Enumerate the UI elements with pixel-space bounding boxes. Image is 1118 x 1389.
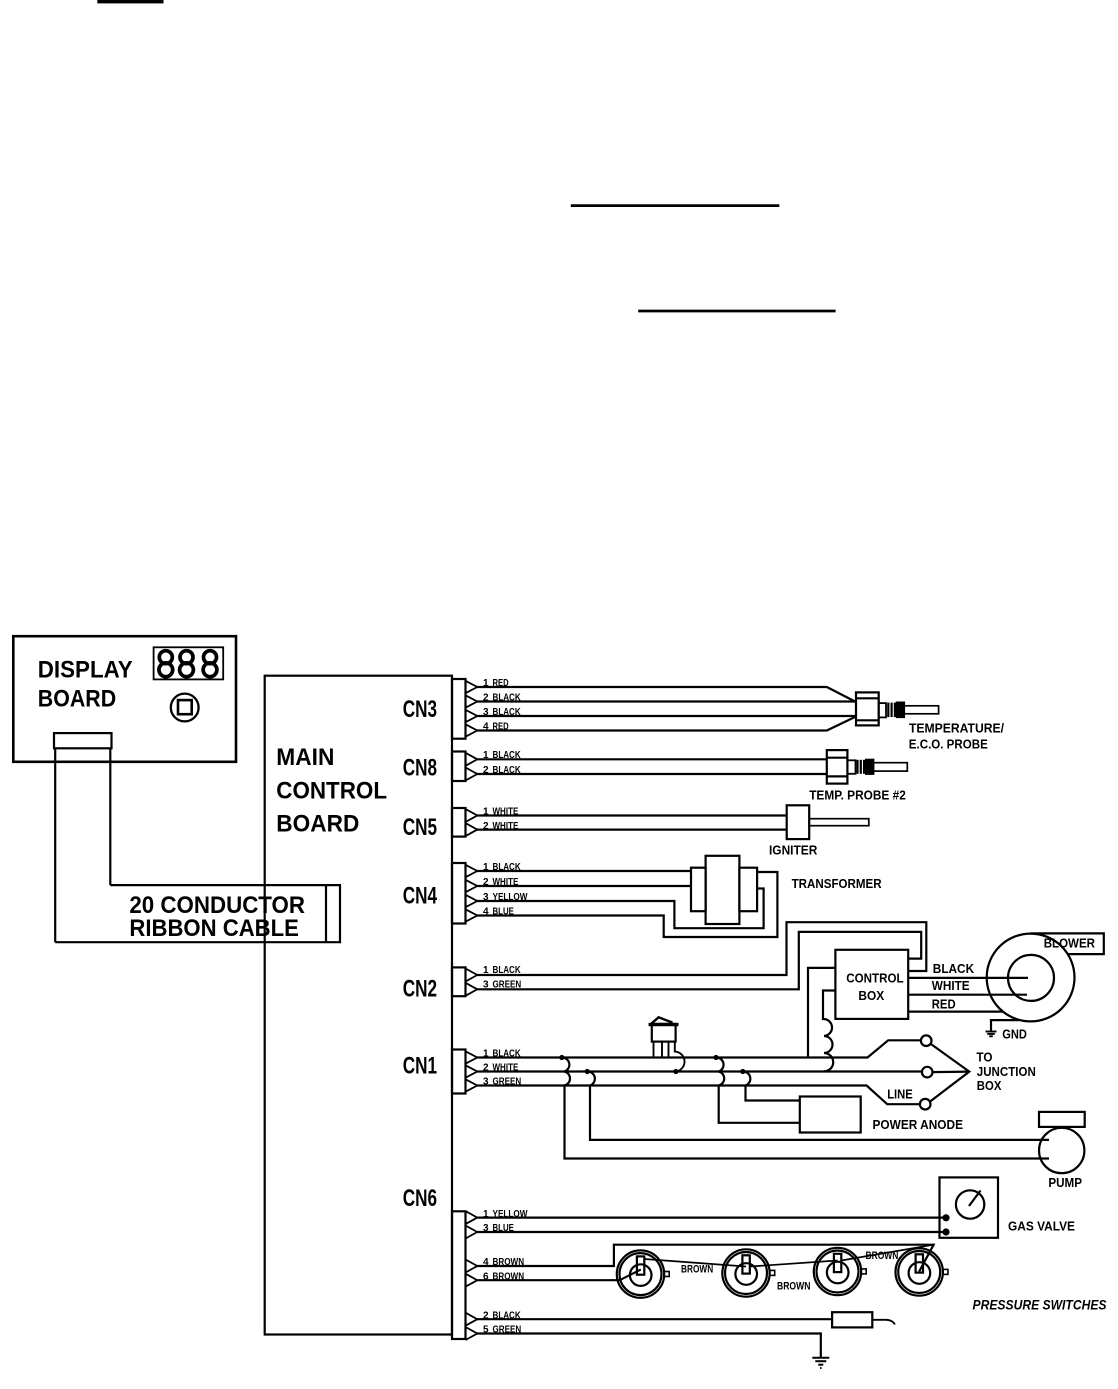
ground symbol bottom (812, 1358, 829, 1368)
svg-text:PUMP: PUMP (1048, 1175, 1082, 1190)
CN3 pin labels (483, 678, 521, 733)
connector CN2 (403, 967, 478, 1002)
svg-text:BLACK: BLACK (933, 961, 975, 976)
svg-text:BROWN: BROWN (866, 1250, 899, 1262)
wire CN8-2 black (477, 773, 827, 775)
wire CN6-5 green (477, 1334, 821, 1358)
wire CN4-2 white (477, 885, 691, 887)
svg-text:BOARD: BOARD (276, 811, 359, 838)
junction terminal circle 2 (922, 1067, 933, 1078)
svg-text:TRANSFORMER: TRANSFORMER (792, 876, 883, 891)
svg-text:DISPLAY: DISPLAY (38, 657, 133, 684)
igniter (769, 805, 869, 857)
blower ground wire (991, 1020, 1019, 1031)
svg-text:MAIN: MAIN (276, 744, 334, 771)
svg-text:CN6: CN6 (403, 1185, 437, 1212)
main control board U1 outline (265, 676, 452, 1335)
wire CN5-2 white (477, 828, 786, 830)
pressure switch PS2 (722, 1249, 774, 1296)
svg-text:RED: RED (932, 997, 956, 1012)
control box (835, 950, 908, 1019)
rocker switch S1 (649, 1017, 685, 1071)
ribbon cable connector at display board (54, 733, 112, 748)
junction labels (887, 1049, 1036, 1101)
svg-text:TEMP. PROBE #2: TEMP. PROBE #2 (809, 788, 906, 803)
20 conductor ribbon cable box (55, 885, 340, 942)
wire CN6-4 brown to pressure switch chain (477, 1245, 933, 1272)
wire PS3 to corner brown (841, 1245, 933, 1261)
gas valve (940, 1177, 1076, 1237)
CN6 pin labels (483, 1209, 528, 1336)
junction terminal circle 1 (921, 1035, 932, 1046)
svg-text:TO: TO (976, 1049, 992, 1064)
svg-text:GAS VALVE: GAS VALVE (1008, 1219, 1075, 1234)
wire CN6-6 brown to switch PS1 (477, 1270, 641, 1281)
wire CN3-1 red (477, 687, 856, 702)
wire drop V4 to power anode (740, 1069, 800, 1101)
wire CN3-3 black (477, 715, 856, 717)
CN8 pin labels (483, 750, 521, 776)
wire PS2 to PS3 brown (750, 1261, 838, 1267)
blower wire labels (932, 961, 975, 1012)
svg-text:POWER ANODE: POWER ANODE (873, 1117, 964, 1132)
svg-text:CN2: CN2 (403, 976, 437, 1003)
wire CN2-1 black (477, 922, 926, 975)
wire CN1-2 white (477, 1070, 922, 1072)
svg-text:CN5: CN5 (403, 814, 437, 841)
display board U2 outline (13, 636, 236, 762)
svg-text:BLOWER: BLOWER (1044, 936, 1096, 951)
svg-text:CN4: CN4 (403, 883, 438, 910)
temp probe #2 (809, 750, 907, 803)
title underline 2 (638, 310, 835, 313)
CN2 pin labels (483, 965, 521, 990)
seven segment display 888 (154, 647, 224, 679)
wire CN2-3 green (477, 932, 921, 989)
wire control box left squiggle to CN1-2 (823, 991, 835, 1072)
wire CN3-4 red (477, 717, 856, 731)
connector CN3 (403, 679, 478, 739)
svg-text:GND: GND (1002, 1027, 1027, 1042)
CN4 pin labels (483, 862, 528, 918)
svg-text:CONTROL: CONTROL (846, 970, 903, 985)
wire control box left to CN1-1 (808, 968, 835, 1058)
ground GND symbol (986, 1032, 997, 1037)
svg-text:IGNITER: IGNITER (769, 842, 818, 857)
wire PS1 to PS2 brown (644, 1259, 746, 1267)
CN5 pin labels (483, 807, 519, 832)
svg-text:CONTROL: CONTROL (276, 777, 387, 804)
wire CN4-4 blue (477, 872, 777, 937)
svg-text:CN8: CN8 (403, 755, 437, 782)
connector CN4 (403, 863, 478, 924)
blower M1 (987, 933, 1104, 1021)
ribbon cable run (54, 748, 56, 942)
svg-text:PRESSURE SWITCHES: PRESSURE SWITCHES (973, 1298, 1107, 1313)
junction terminal circle 3 (920, 1099, 931, 1110)
wire CN6-1 yellow (477, 1216, 942, 1218)
svg-text:WHITE: WHITE (932, 978, 970, 993)
pressure switch PS3 (814, 1248, 866, 1295)
main control board label (276, 744, 387, 837)
wire CN3-2 black (477, 700, 856, 702)
wire drop V1 to pump (559, 1055, 1049, 1159)
fuse / sensor on CN6-2 (832, 1312, 895, 1327)
title underline 1 (571, 204, 780, 207)
connector CN5 (403, 808, 478, 841)
temperature/ECO probe (856, 692, 1004, 751)
svg-text:BOX: BOX (858, 988, 884, 1003)
svg-text:RIBBON CABLE: RIBBON CABLE (129, 915, 299, 942)
svg-text:E.C.O. PROBE: E.C.O. PROBE (909, 737, 988, 752)
wire CN6-3 blue (477, 1231, 942, 1233)
svg-text:BOX: BOX (977, 1078, 1002, 1093)
push button SW (171, 694, 199, 722)
svg-text:CN1: CN1 (403, 1053, 437, 1080)
svg-text:BROWN: BROWN (777, 1281, 810, 1293)
svg-text:CN3: CN3 (403, 696, 437, 723)
wire CN5-1 white (477, 814, 786, 816)
wire CN1-3 green (477, 1086, 920, 1105)
svg-text:JUNCTION: JUNCTION (977, 1064, 1036, 1079)
wire blower white (908, 994, 1027, 996)
wire CN4-1 black (477, 870, 691, 872)
brown wire labels (681, 1250, 898, 1293)
connector CN1 (403, 1050, 478, 1094)
wire blower black (908, 977, 1028, 979)
connector CN8 (403, 752, 478, 782)
pressure switch PS4 (896, 1248, 948, 1295)
wire CN6-2 black (477, 1318, 832, 1320)
transformer T1 (691, 856, 882, 924)
wire drop V2 to pump (585, 1069, 1049, 1140)
pressure switch PS1 (617, 1250, 669, 1297)
junction dot switch to wire2 (673, 1069, 678, 1074)
pump M2 (1039, 1112, 1085, 1190)
junction fan-in wires (931, 1044, 970, 1101)
wire CN1-1 black (477, 1040, 921, 1057)
wire CN4-3 yellow (477, 889, 763, 929)
svg-text:TEMPERATURE/: TEMPERATURE/ (909, 721, 1004, 736)
wire drop V3 to power anode (713, 1055, 799, 1123)
display board label (38, 657, 133, 713)
svg-text:BOARD: BOARD (38, 685, 116, 712)
svg-text:BROWN: BROWN (681, 1264, 713, 1276)
CN1 pin labels (483, 1049, 521, 1088)
wire blower red (908, 1010, 1003, 1012)
svg-text:LINE: LINE (887, 1087, 913, 1102)
power anode (800, 1097, 963, 1133)
wire CN8-1 black (477, 758, 827, 760)
header bar (97, 0, 163, 3)
connector CN6 (403, 1185, 478, 1340)
